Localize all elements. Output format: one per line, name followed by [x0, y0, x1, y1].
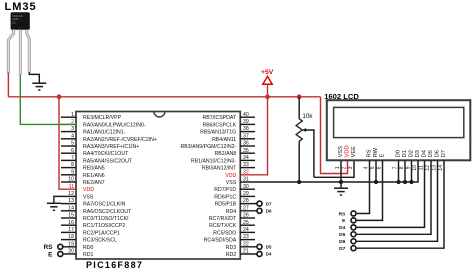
- pin 2 RA0/AN0/ULPWU/C12IN0- (left): [61, 119, 146, 128]
- wire ground bus from PIC VSS pin31 to LCD D3: [240, 160, 418, 182]
- svg-text:VSS: VSS: [338, 146, 344, 158]
- pin 10 RE2/AN7 (left): [61, 177, 105, 186]
- svg-text:RD3: RD3: [226, 245, 236, 251]
- svg-text:RE0/AN5: RE0/AN5: [83, 166, 105, 172]
- pin 22 RD3 (right): [226, 241, 257, 250]
- svg-text:D3: D3: [415, 150, 421, 157]
- pin 33 RB0/AN12/INT (right): [202, 162, 255, 171]
- pin 26 RC7/RX/DT (right): [209, 213, 255, 222]
- wire LCD D5 pin12 to terminal: [357, 160, 431, 234]
- LM35 leg 1 (+Vs): [8, 30, 13, 74]
- svg-text:12: 12: [68, 191, 74, 197]
- svg-text:11: 11: [419, 165, 425, 170]
- pin 16 RC1/T1OSI/CCP2 (left): [61, 220, 125, 229]
- svg-text:5: 5: [370, 166, 376, 169]
- pin 13 RA7/OSC1/CLKIN (left): [61, 198, 126, 207]
- wire LCD RS pin4 to terminal: [357, 160, 370, 213]
- svg-text:VDD: VDD: [83, 187, 94, 193]
- IC U1 PIC16F887 body: [76, 112, 240, 260]
- svg-text:RC3/SCK/SCL: RC3/SCK/SCL: [83, 238, 117, 244]
- svg-text:16: 16: [68, 220, 74, 226]
- pin 9 RE1/AN6 (left): [61, 169, 105, 178]
- svg-text:26: 26: [243, 213, 249, 219]
- svg-text:D0: D0: [395, 150, 401, 157]
- pin 31 VSS (right): [226, 177, 249, 186]
- svg-text:6: 6: [377, 166, 383, 169]
- svg-text:LM35: LM35: [5, 1, 37, 13]
- svg-text:VSS: VSS: [83, 194, 94, 200]
- wire LCD D4 pin11 to terminal: [357, 160, 425, 227]
- LCD pin 10 D3: [412, 150, 421, 170]
- wire green analog Vout to RA0: [20, 75, 76, 125]
- ground symbol at PIC VSS: [47, 203, 61, 210]
- pin 20 RD1 (left): [63, 249, 93, 258]
- svg-text:E: E: [379, 153, 385, 157]
- svg-text:9: 9: [71, 169, 74, 175]
- svg-text:RB7/ICSPDAT: RB7/ICSPDAT: [203, 115, 237, 121]
- LM35 label: [5, 1, 37, 13]
- LM35 leg 3 (GND): [27, 30, 30, 73]
- svg-text:VEE: VEE: [351, 146, 357, 158]
- svg-text:RD0: RD0: [83, 245, 93, 251]
- terminal D5 (to pin 22): [257, 244, 272, 249]
- pin 19 RD0 (left): [63, 241, 93, 250]
- svg-text:D5: D5: [339, 232, 346, 238]
- wire red branch to PIC VDD pin11: [59, 97, 77, 189]
- pin 35 RB2/AN8 (right): [215, 148, 255, 157]
- LCD pin 4 RS: [364, 149, 373, 169]
- LCD pin 11 D4: [419, 150, 428, 170]
- LCD module LCD1 body: [327, 100, 471, 160]
- pin 4 RA2/AN2/VREF-/CVREF/C2IN+ (left): [61, 133, 157, 142]
- svg-text:14: 14: [438, 165, 444, 171]
- svg-text:RA2/AN2/VREF-/CVREF/C2IN+: RA2/AN2/VREF-/CVREF/C2IN+: [83, 137, 157, 143]
- pin 28 RD5/P1B (right): [215, 198, 257, 207]
- LM35 leg 2 (Vout): [19, 30, 22, 76]
- svg-text:21: 21: [243, 249, 249, 255]
- pin 38 RB5/AN13/T1G (right): [200, 126, 255, 135]
- svg-text:1: 1: [71, 112, 74, 118]
- svg-text:RD2: RD2: [226, 252, 236, 258]
- svg-text:RB0/AN12/INT: RB0/AN12/INT: [202, 166, 237, 172]
- pin 6 RA4/T0CKI/C1OUT (left): [61, 148, 129, 157]
- svg-text:20: 20: [68, 249, 74, 255]
- svg-text:18: 18: [68, 234, 74, 240]
- svg-text:32: 32: [243, 169, 249, 175]
- pin 40 RB7/ICSPDAT (right): [203, 112, 255, 121]
- wire LCD D1 pin8 to bus: [403, 160, 407, 184]
- junction node on rail at +5V symbol: [265, 94, 270, 99]
- transistor-style sensor U LM35 (TO-92 body): [11, 12, 30, 30]
- svg-text:8: 8: [71, 162, 74, 168]
- pin 32 VDD (right): [225, 169, 249, 178]
- svg-text:RD1: RD1: [83, 252, 93, 258]
- pin 23 RC4/SDI/SDA (right): [204, 234, 255, 243]
- LCD label 1602 LCD: [324, 92, 359, 101]
- svg-text:28: 28: [243, 198, 249, 204]
- wire red rail to LCD VDD pin2: [321, 97, 348, 174]
- svg-text:RB4/AN11: RB4/AN11: [212, 137, 236, 143]
- svg-text:4: 4: [71, 133, 74, 139]
- terminal D6 at LCD: [339, 239, 356, 245]
- svg-text:10: 10: [412, 165, 418, 171]
- svg-text:25: 25: [243, 220, 249, 226]
- svg-text:23: 23: [243, 234, 249, 240]
- wire LCD D7 pin14 to terminal: [357, 160, 444, 248]
- svg-text:D2: D2: [408, 150, 414, 157]
- pin 5 RA3/AN3/VREF+/C1IN+ (left): [61, 141, 139, 150]
- svg-text:10: 10: [68, 177, 74, 183]
- svg-text:40: 40: [243, 112, 249, 118]
- terminal RS at LCD: [339, 211, 356, 217]
- svg-text:D6: D6: [266, 209, 272, 214]
- svg-text:RD6/P1C: RD6/P1C: [214, 194, 236, 200]
- junction node on rail at VDD branch: [57, 94, 62, 99]
- svg-text:2: 2: [342, 166, 348, 169]
- pin 3 RA1/AN1/C12IN1- (left): [61, 126, 126, 135]
- +5V power rail (red): [8, 96, 320, 98]
- LCD pin 8 D1: [399, 150, 408, 169]
- pin 29 RD6/P1C (right): [214, 191, 255, 200]
- pin 11 VDD (left): [69, 184, 95, 193]
- svg-text:24: 24: [243, 227, 249, 233]
- pin 25 RC6/TX/CK (right): [209, 220, 255, 229]
- svg-text:11: 11: [69, 184, 74, 190]
- svg-text:RE1/AN6: RE1/AN6: [83, 173, 105, 179]
- svg-text:RD5/P1B: RD5/P1B: [215, 202, 237, 208]
- svg-text:D7: D7: [339, 246, 346, 252]
- svg-text:RC2/P1A/CCP1: RC2/P1A/CCP1: [83, 230, 120, 236]
- svg-text:4: 4: [364, 166, 370, 169]
- svg-text:RA4/T0CKI/C1OUT: RA4/T0CKI/C1OUT: [83, 151, 129, 157]
- svg-text:RA0/AN0/ULPWU/C12IN0-: RA0/AN0/ULPWU/C12IN0-: [83, 122, 146, 128]
- svg-text:RW: RW: [373, 147, 379, 157]
- svg-text:RB6/ICSPCLK: RB6/ICSPCLK: [202, 122, 236, 128]
- LCD pin 12 D5: [425, 150, 434, 170]
- wire LCD VSS pin1 to ground bus: [340, 160, 342, 182]
- terminal D7 at LCD: [339, 246, 356, 252]
- svg-text:RA1/AN1/C12IN1-: RA1/AN1/C12IN1-: [83, 130, 126, 136]
- svg-text:D6: D6: [339, 239, 346, 245]
- terminal D5 at LCD: [339, 232, 356, 238]
- pin 39 RB6/ICSPCLK (right): [202, 119, 255, 128]
- svg-text:D6: D6: [434, 150, 440, 157]
- svg-text:35: 35: [243, 148, 249, 154]
- LCD pin 13 D6: [432, 150, 441, 170]
- svg-text:9: 9: [406, 166, 412, 169]
- terminal D7 (to pin 28): [257, 201, 272, 206]
- svg-text:RD4: RD4: [226, 209, 236, 215]
- svg-text:RS: RS: [339, 211, 347, 217]
- wire LCD D6 pin13 to terminal: [357, 160, 438, 241]
- svg-text:14: 14: [68, 205, 74, 211]
- svg-text:DZ: DZ: [12, 20, 16, 24]
- svg-text:37: 37: [243, 133, 249, 139]
- svg-text:12: 12: [425, 165, 431, 171]
- svg-text:5: 5: [71, 141, 74, 147]
- pin 18 RC3/SCK/SCL (left): [61, 234, 117, 243]
- svg-text:3: 3: [71, 126, 74, 132]
- svg-text:15: 15: [68, 213, 74, 219]
- svg-text:D1: D1: [402, 150, 408, 157]
- svg-text:VSS: VSS: [226, 180, 237, 186]
- LCD pin 6 E: [377, 153, 386, 169]
- svg-text:3: 3: [348, 166, 354, 169]
- terminal E (to RD1 pin20): [48, 251, 63, 258]
- svg-text:33: 33: [243, 162, 249, 168]
- svg-text:RE3/MCLR/VPP: RE3/MCLR/VPP: [83, 115, 122, 121]
- svg-text:RB2/AN8: RB2/AN8: [215, 151, 237, 157]
- wire VEE contrast from wiper to LCD pin3: [314, 160, 354, 177]
- terminal D6 (to pin 27): [257, 208, 272, 213]
- LCD pin 5 RW: [370, 147, 379, 169]
- svg-text:7: 7: [393, 166, 399, 169]
- svg-text:VDD: VDD: [344, 145, 350, 157]
- potentiometer RV1 10k: [296, 97, 314, 182]
- LCD pin 9 D2: [406, 150, 415, 169]
- power symbol +5V: [261, 69, 274, 97]
- svg-text:19: 19: [68, 241, 74, 247]
- terminal D4 at LCD: [339, 225, 356, 231]
- svg-text:RE2/AN7: RE2/AN7: [83, 180, 105, 186]
- wire LCD D2 pin9 to bus: [409, 160, 413, 184]
- svg-text:10k: 10k: [302, 113, 313, 120]
- svg-text:RC4/SDI/SDA: RC4/SDI/SDA: [204, 238, 237, 244]
- pin 1 RE3/MCLR/VPP (left): [61, 112, 122, 121]
- svg-text:RC6/TX/CK: RC6/TX/CK: [209, 223, 237, 229]
- svg-text:RC0/T1OSO/T1CKI: RC0/T1OSO/T1CKI: [83, 216, 129, 222]
- svg-text:+5V: +5V: [261, 69, 274, 76]
- svg-text:D4: D4: [339, 225, 346, 231]
- pin 15 RC0/T1OSO/T1CKI (left): [61, 213, 129, 222]
- svg-text:1: 1: [335, 166, 341, 169]
- pin 17 RC2/P1A/CCP1 (left): [61, 227, 120, 236]
- svg-text:PIC16F887: PIC16F887: [86, 260, 143, 270]
- svg-text:34: 34: [243, 155, 249, 161]
- ground symbol under LCD VSS: [334, 182, 348, 195]
- svg-text:2: 2: [71, 119, 74, 125]
- svg-text:8: 8: [399, 166, 405, 169]
- svg-text:7: 7: [71, 155, 74, 161]
- pin 14 RA6/OSC2/CLKOUT (left): [61, 205, 132, 214]
- svg-text:29: 29: [243, 191, 249, 197]
- svg-text:VDD: VDD: [225, 173, 236, 179]
- LCD pin 3 VEE: [348, 146, 357, 169]
- svg-text:17: 17: [68, 227, 74, 233]
- wire LCD E pin6 to terminal: [357, 160, 383, 220]
- LCD pin 1 VSS: [335, 146, 344, 169]
- LCD pin 7 D0: [393, 150, 402, 169]
- LCD pin 2 VDD: [342, 145, 351, 169]
- svg-text:D5: D5: [428, 150, 434, 157]
- ground symbol near LM35: [32, 83, 46, 90]
- svg-text:RC1/T1OSI/CCP2: RC1/T1OSI/CCP2: [83, 223, 125, 229]
- svg-text:RB5/AN13/T1G: RB5/AN13/T1G: [200, 130, 236, 136]
- svg-text:RA7/OSC1/CLKIN: RA7/OSC1/CLKIN: [83, 202, 126, 208]
- pin 37 RB4/AN11 (right): [212, 133, 255, 142]
- svg-text:27: 27: [243, 205, 249, 211]
- pin 21 RD2 (right): [226, 249, 257, 258]
- wire GND from LM35 pin3 to ground: [29, 72, 39, 83]
- svg-text:D7: D7: [266, 201, 272, 206]
- wire LCD RW pin5 to bus: [374, 160, 378, 184]
- svg-text:30: 30: [243, 184, 249, 190]
- svg-text:RC7/RX/DT: RC7/RX/DT: [209, 216, 237, 222]
- svg-text:RD7/P1D: RD7/P1D: [214, 187, 236, 193]
- svg-text:RB3/AN9/PGM/C12IN2-: RB3/AN9/PGM/C12IN2-: [181, 144, 237, 150]
- svg-text:D5: D5: [266, 245, 272, 250]
- svg-text:D7: D7: [441, 150, 447, 157]
- pin 36 RB3/AN9/PGM/C12IN2- (right): [181, 141, 255, 150]
- LCD pin 14 D7: [438, 150, 447, 170]
- svg-text:RB1/AN10/C12IN3-: RB1/AN10/C12IN3-: [191, 158, 237, 164]
- svg-text:22: 22: [243, 241, 249, 247]
- svg-text:39: 39: [243, 119, 249, 125]
- svg-text:13: 13: [68, 198, 74, 204]
- svg-text:RA5/AN4/SS/C2OUT: RA5/AN4/SS/C2OUT: [83, 158, 133, 164]
- wire red +5V drop to PIC VDD pin32: [240, 97, 268, 175]
- svg-text:RS: RS: [43, 244, 53, 251]
- svg-text:E: E: [48, 251, 53, 258]
- pin 12 VSS (left): [61, 191, 94, 200]
- wire +5V from LM35 pin1 down to rail: [7, 73, 9, 97]
- terminal E at LCD: [342, 218, 356, 224]
- svg-text:38: 38: [243, 126, 249, 132]
- pin 27 RD4 (right): [226, 205, 257, 214]
- pin 34 RB1/AN10/C12IN3- (right): [191, 155, 255, 164]
- svg-text:RC5/SDO: RC5/SDO: [213, 230, 236, 236]
- svg-text:36: 36: [243, 141, 249, 147]
- pin 30 RD7/P1D (right): [214, 184, 255, 193]
- terminal RS (to RD0 pin19): [43, 244, 62, 251]
- svg-text:RS: RS: [366, 149, 372, 157]
- pin 24 RC5/SDO (right): [213, 227, 255, 236]
- svg-text:RA3/AN3/VREF+/C1IN+: RA3/AN3/VREF+/C1IN+: [83, 144, 139, 150]
- IC label PIC16F887: [86, 260, 143, 270]
- junction node VSS/ground on bus: [339, 180, 343, 184]
- svg-text:D4: D4: [266, 252, 272, 257]
- svg-text:6: 6: [71, 148, 74, 154]
- junction node pot bottom on bus: [297, 180, 301, 184]
- pin 7 RA5/AN4/SS/C2OUT (left): [61, 155, 133, 164]
- svg-text:RA6/OSC2/CLKOUT: RA6/OSC2/CLKOUT: [83, 209, 132, 215]
- wire LCD D0 pin7 to bus: [396, 160, 400, 184]
- svg-text:D4: D4: [421, 150, 427, 157]
- pin 8 RE0/AN5 (left): [61, 162, 105, 171]
- terminal D4 (to pin 21): [257, 252, 272, 257]
- wire PIC VSS pin12 to ground: [54, 196, 61, 203]
- svg-text:13: 13: [432, 165, 438, 171]
- junction node on rail at potentiometer: [297, 94, 302, 99]
